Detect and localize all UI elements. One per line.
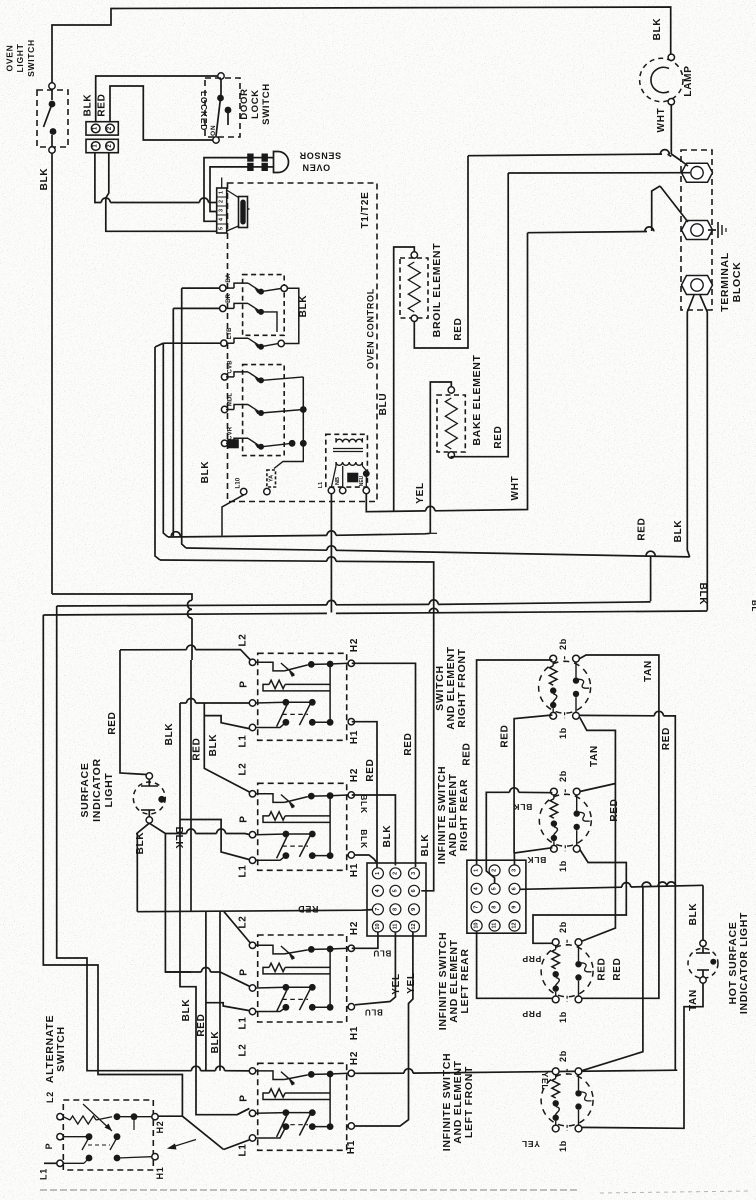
svg-text:SWITCH: SWITCH bbox=[261, 83, 272, 125]
svg-text:YEL: YEL bbox=[415, 482, 426, 504]
svg-text:H2: H2 bbox=[349, 768, 360, 782]
svg-text:P: P bbox=[239, 815, 250, 822]
svg-text:BLK: BLK bbox=[208, 734, 219, 757]
svg-text:BLK: BLK bbox=[697, 583, 708, 606]
svg-text:NEU: NEU bbox=[359, 475, 365, 486]
svg-text:RED: RED bbox=[107, 711, 118, 734]
svg-text:L2: L2 bbox=[238, 762, 249, 775]
svg-text:BLK: BLK bbox=[83, 94, 94, 117]
svg-text:BLK: BLK bbox=[527, 855, 547, 865]
svg-text:INDICATOR LIGHT: INDICATOR LIGHT bbox=[738, 912, 750, 1014]
svg-text:BLK: BLK bbox=[173, 827, 184, 850]
svg-text:RED: RED bbox=[462, 742, 473, 765]
svg-text:RIGHT REAR: RIGHT REAR bbox=[458, 779, 470, 851]
svg-text:1: 1 bbox=[474, 869, 480, 872]
svg-text:5: 5 bbox=[492, 887, 498, 890]
svg-text:BLK: BLK bbox=[652, 18, 663, 41]
svg-text:2: 2 bbox=[392, 872, 398, 875]
svg-text:SURFACE: SURFACE bbox=[79, 762, 91, 817]
svg-text:1: 1 bbox=[219, 191, 225, 194]
svg-text:12: 12 bbox=[411, 923, 417, 929]
svg-text:7: 7 bbox=[474, 906, 480, 909]
svg-text:1: 1 bbox=[375, 872, 381, 875]
svg-text:1b: 1b bbox=[558, 1011, 568, 1023]
svg-text:RED: RED bbox=[637, 517, 648, 540]
svg-text:H2: H2 bbox=[349, 1051, 360, 1065]
svg-text:H1: H1 bbox=[155, 1167, 165, 1180]
svg-text:NO: NO bbox=[209, 125, 216, 136]
svg-text:RED: RED bbox=[661, 727, 672, 750]
svg-text:OVEN: OVEN bbox=[5, 45, 15, 72]
svg-text:LTB: LTB bbox=[227, 327, 233, 339]
svg-text:P: P bbox=[239, 1094, 250, 1101]
svg-text:3: 3 bbox=[411, 872, 417, 875]
svg-text:BL: BL bbox=[750, 600, 756, 612]
svg-text:LIGHT: LIGHT bbox=[15, 43, 25, 72]
svg-text:RED: RED bbox=[493, 425, 504, 448]
svg-text:L1: L1 bbox=[238, 864, 249, 877]
svg-text:BA: BA bbox=[226, 273, 232, 283]
svg-text:RED: RED bbox=[609, 798, 620, 821]
svg-text:7: 7 bbox=[375, 908, 381, 911]
svg-text:H1: H1 bbox=[346, 1140, 357, 1154]
svg-text:OVEN CONTROL: OVEN CONTROL bbox=[366, 288, 376, 369]
svg-text:BLK: BLK bbox=[688, 903, 699, 926]
svg-text:CVR: CVR bbox=[228, 426, 234, 440]
svg-text:BLOCK: BLOCK bbox=[731, 262, 743, 303]
svg-text:P: P bbox=[239, 680, 250, 687]
svg-text:RED: RED bbox=[453, 317, 464, 340]
svg-text:T1/T2E: T1/T2E bbox=[360, 192, 371, 229]
svg-text:TAN: TAN bbox=[643, 660, 654, 682]
svg-text:3: 3 bbox=[219, 209, 225, 212]
svg-text:BLU: BLU bbox=[373, 949, 392, 958]
svg-text:BAKE ELEMENT: BAKE ELEMENT bbox=[471, 354, 483, 445]
svg-text:YEL: YEL bbox=[406, 972, 417, 994]
svg-text:SWITCH: SWITCH bbox=[26, 39, 36, 77]
svg-text:L1: L1 bbox=[238, 734, 249, 747]
svg-text:8: 8 bbox=[392, 908, 398, 911]
svg-text:8: 8 bbox=[492, 906, 498, 909]
svg-text:NB: NB bbox=[335, 477, 341, 485]
svg-text:BLK: BLK bbox=[298, 295, 309, 318]
svg-text:YA: YA bbox=[268, 475, 274, 482]
svg-text:BLU: BLU bbox=[364, 1008, 383, 1017]
svg-text:L2: L2 bbox=[45, 1091, 55, 1103]
svg-text:LEFT FRONT: LEFT FRONT bbox=[463, 1066, 475, 1138]
svg-text:5: 5 bbox=[392, 889, 398, 892]
svg-text:RED: RED bbox=[192, 737, 203, 760]
svg-text:L1: L1 bbox=[39, 1168, 49, 1180]
svg-text:MDL: MDL bbox=[228, 393, 234, 407]
svg-text:BLK: BLK bbox=[673, 520, 684, 543]
svg-text:BLK: BLK bbox=[210, 1031, 221, 1054]
svg-text:LOCKED: LOCKED bbox=[199, 91, 209, 131]
svg-text:RED: RED bbox=[597, 957, 608, 980]
svg-text:BLK: BLK bbox=[200, 461, 211, 484]
svg-text:BROIL ELEMENT: BROIL ELEMENT bbox=[431, 243, 443, 338]
svg-text:RED: RED bbox=[196, 1013, 207, 1036]
svg-text:10: 10 bbox=[375, 923, 381, 929]
svg-text:L1: L1 bbox=[238, 1143, 249, 1156]
svg-text:6: 6 bbox=[512, 887, 518, 890]
svg-text:YEL: YEL bbox=[540, 1072, 550, 1091]
svg-text:PRP: PRP bbox=[522, 954, 542, 964]
svg-text:RED: RED bbox=[297, 904, 318, 914]
svg-text:H1: H1 bbox=[349, 863, 360, 877]
svg-text:P: P bbox=[44, 1143, 54, 1150]
svg-text:9: 9 bbox=[512, 906, 518, 909]
svg-text:1b: 1b bbox=[558, 860, 568, 872]
svg-text:BR: BR bbox=[226, 293, 232, 303]
svg-text:H1: H1 bbox=[349, 1026, 360, 1040]
svg-text:CVB: CVB bbox=[228, 360, 234, 374]
svg-text:BLK: BLK bbox=[513, 802, 533, 812]
svg-text:2: 2 bbox=[492, 869, 498, 872]
svg-text:12: 12 bbox=[512, 923, 518, 929]
svg-text:L2: L2 bbox=[238, 633, 249, 646]
svg-text:RED: RED bbox=[500, 724, 511, 747]
svg-text:TAN: TAN bbox=[589, 745, 600, 767]
svg-text:BLK: BLK bbox=[359, 794, 369, 814]
svg-text:P: P bbox=[239, 968, 250, 975]
svg-text:2: 2 bbox=[219, 200, 225, 203]
svg-text:BLK: BLK bbox=[164, 723, 175, 746]
svg-text:L1: L1 bbox=[238, 1016, 249, 1029]
svg-text:SENSOR: SENSOR bbox=[299, 151, 341, 161]
svg-text:RED: RED bbox=[97, 93, 108, 116]
svg-text:3: 3 bbox=[512, 869, 518, 872]
svg-text:6: 6 bbox=[411, 889, 417, 892]
svg-text:INDICATOR: INDICATOR bbox=[91, 758, 103, 822]
svg-text:YEL: YEL bbox=[391, 973, 402, 995]
svg-text:2b: 2b bbox=[558, 1050, 568, 1062]
svg-text:BLK: BLK bbox=[359, 829, 369, 849]
svg-text:L1: L1 bbox=[318, 482, 324, 488]
svg-text:1b: 1b bbox=[558, 727, 568, 739]
svg-text:BLU: BLU bbox=[378, 393, 389, 416]
svg-text:WHT: WHT bbox=[510, 476, 521, 501]
svg-text:H2: H2 bbox=[349, 921, 360, 935]
svg-text:5: 5 bbox=[219, 227, 225, 230]
svg-text:BLK: BLK bbox=[181, 999, 192, 1022]
svg-text:BLK: BLK bbox=[39, 168, 50, 191]
svg-text:1b: 1b bbox=[558, 1140, 568, 1152]
svg-text:H1: H1 bbox=[349, 730, 360, 744]
svg-text:BLK: BLK bbox=[420, 834, 431, 857]
svg-text:BLK: BLK bbox=[382, 825, 393, 848]
svg-text:10: 10 bbox=[474, 923, 480, 929]
svg-text:LAMP: LAMP bbox=[683, 65, 694, 96]
svg-text:WHT: WHT bbox=[656, 108, 667, 133]
svg-text:11: 11 bbox=[492, 923, 498, 929]
svg-text:RED: RED bbox=[403, 732, 414, 755]
svg-text:LIGHT: LIGHT bbox=[103, 773, 115, 808]
svg-text:L2: L2 bbox=[238, 1043, 249, 1056]
svg-text:2b: 2b bbox=[558, 921, 568, 933]
svg-text:PRP: PRP bbox=[522, 1009, 542, 1019]
svg-text:LOCK: LOCK bbox=[250, 89, 261, 119]
svg-text:9: 9 bbox=[411, 908, 417, 911]
svg-text:OVEN: OVEN bbox=[302, 163, 330, 173]
svg-text:2b: 2b bbox=[558, 770, 568, 782]
svg-text:LEFT REAR: LEFT REAR bbox=[459, 948, 471, 1013]
svg-text:H2: H2 bbox=[155, 1121, 165, 1134]
svg-text:L10: L10 bbox=[236, 477, 242, 488]
svg-text:H2: H2 bbox=[349, 638, 360, 652]
svg-text:2b: 2b bbox=[558, 638, 568, 650]
svg-text:TERMINAL: TERMINAL bbox=[719, 252, 731, 312]
svg-text:11: 11 bbox=[392, 924, 398, 930]
svg-text:L2: L2 bbox=[238, 915, 249, 928]
svg-text:DOOR: DOOR bbox=[239, 88, 250, 119]
svg-text:SWITCH: SWITCH bbox=[55, 1026, 67, 1072]
svg-text:RED: RED bbox=[612, 957, 623, 980]
svg-text:RED: RED bbox=[365, 758, 376, 781]
svg-text:RIGHT FRONT: RIGHT FRONT bbox=[456, 648, 468, 727]
svg-text:YEL: YEL bbox=[521, 1139, 540, 1149]
svg-text:TAN: TAN bbox=[688, 989, 699, 1011]
